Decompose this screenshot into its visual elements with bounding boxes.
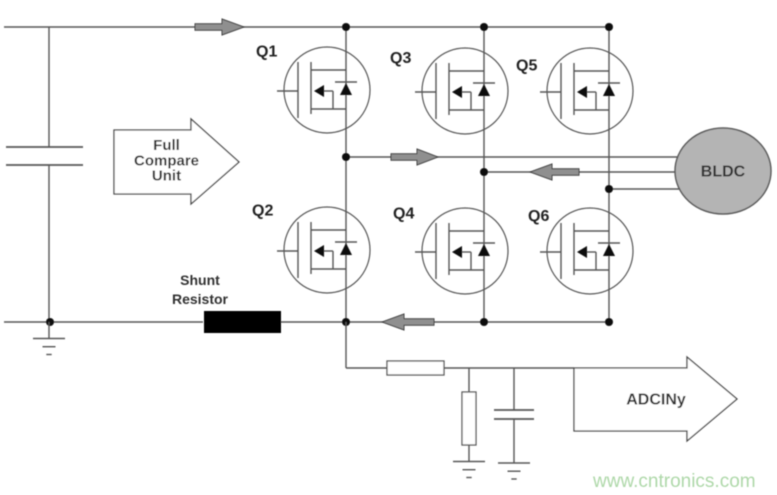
node: bottom rail / phase-C bus bbox=[605, 318, 613, 326]
gray arrow: bottom rail current flow (left) bbox=[382, 314, 434, 330]
gray arrow: phase-A current flow (right) bbox=[391, 149, 438, 165]
resistor: series filter resistor bbox=[387, 361, 444, 375]
transistor Q1 bbox=[277, 47, 370, 133]
svg-text:Unit: Unit bbox=[152, 168, 181, 185]
transistor Q3 bbox=[415, 48, 508, 134]
svg-text:www.cntronics.com: www.cntronics.com bbox=[592, 471, 756, 492]
resistor: shunt (black block) bbox=[204, 311, 281, 333]
svg-text:Q3: Q3 bbox=[390, 50, 411, 67]
svg-text:ADCINy: ADCINy bbox=[626, 392, 686, 409]
svg-text:Q1: Q1 bbox=[256, 44, 277, 61]
wire: bottom DC return rail bbox=[4, 321, 203, 323]
wire: ground stub bbox=[48, 322, 50, 338]
BLDC motor bbox=[675, 128, 771, 214]
wire: phase-C output to BLDC bbox=[609, 188, 679, 190]
wire: top DC bus rail bbox=[4, 26, 609, 28]
resistor: pulldown resistor bbox=[462, 392, 476, 445]
wire: sense line horizontal bbox=[346, 367, 574, 369]
wire: filter capacitor to ground bbox=[513, 419, 515, 463]
wire: phase-A output to BLDC bbox=[346, 156, 678, 158]
ground: left rail earth bbox=[33, 339, 65, 355]
wire: pulldown resistor to ground bbox=[468, 445, 470, 461]
gray arrow: top rail current flow (right) bbox=[195, 19, 244, 35]
gray arrow: phase-B current flow (left) bbox=[530, 164, 579, 180]
svg-text:Q6: Q6 bbox=[528, 208, 549, 225]
svg-text:Q4: Q4 bbox=[393, 206, 414, 223]
node: phase-C midpoint bbox=[605, 185, 613, 193]
ADCINy block arrow bbox=[574, 357, 737, 441]
svg-text:Resistor: Resistor bbox=[172, 291, 229, 307]
transistor Q4 bbox=[415, 208, 508, 294]
node: bottom rail / phase-A bus bbox=[342, 318, 350, 326]
capacitor C2 (filter) bbox=[494, 410, 534, 419]
transistor Q2 bbox=[277, 207, 370, 293]
ground: pulldown resistor earth bbox=[453, 462, 485, 478]
wire: phase-A half-bridge bus (vertical) bbox=[345, 27, 347, 322]
svg-text:BLDC: BLDC bbox=[701, 164, 746, 181]
wire: phase-C half-bridge bus (vertical) bbox=[608, 27, 610, 322]
node: phase-A midpoint bbox=[342, 153, 350, 161]
Full Compare Unit block arrow bbox=[114, 119, 239, 204]
node: junction left rail / ground bbox=[46, 318, 54, 326]
svg-text:Q2: Q2 bbox=[252, 203, 273, 220]
wire: pulldown resistor stub bbox=[468, 368, 470, 392]
svg-text:Q5: Q5 bbox=[516, 58, 537, 75]
node: top rail / phase-B bus bbox=[480, 23, 488, 31]
wire: bottom rail segment right of shunt bbox=[281, 321, 609, 323]
transistor Q5 bbox=[540, 48, 633, 134]
node: bottom rail / phase-B bus bbox=[480, 318, 488, 326]
ground: filter capacitor earth bbox=[498, 463, 530, 479]
wire: phase-B output to BLDC bbox=[484, 171, 675, 173]
wire: left branch upper segment bbox=[48, 27, 50, 147]
svg-text:Shunt: Shunt bbox=[180, 272, 220, 288]
node: phase-B midpoint bbox=[480, 168, 488, 176]
capacitor C1 (DC-link) bbox=[6, 147, 83, 165]
wire: filter capacitor stub bbox=[513, 368, 515, 410]
transistor Q6 bbox=[540, 208, 633, 294]
node: top rail / phase-C bus bbox=[605, 23, 613, 31]
wire: phase-B half-bridge bus (vertical) bbox=[483, 27, 485, 322]
node: top rail / phase-A bus bbox=[342, 23, 350, 31]
wire: left branch lower segment bbox=[48, 165, 50, 322]
wire: sense tap vertical bbox=[345, 322, 347, 368]
